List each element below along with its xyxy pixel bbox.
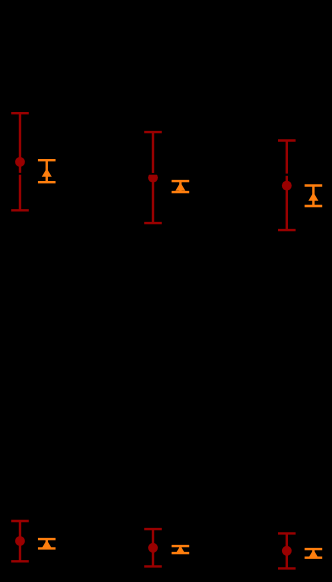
marker circle red top-middle [148,173,158,183]
errorbar orange top-left (series 2, group 1) [38,160,56,182]
gap black-cap over red top-left [12,173,28,175]
marker circle red bottom-right [282,546,292,556]
marker triangle orange top-right [308,192,318,200]
errorbar orange bottom-left (series 2, group 1) [38,539,56,548]
gap black-cap over red top-middle [145,173,161,175]
errorbar red top-left (series 1, group 1) [11,113,29,210]
errorbar red bottom-left (series 1, group 1) [11,521,29,561]
marker circle red bottom-left [15,536,25,546]
marker circle red top-right [282,181,292,191]
marker triangle orange top-middle [175,182,185,190]
marker circle red bottom-middle [148,543,158,553]
marker triangle orange bottom-right [308,550,318,558]
errorbar orange top-middle (series 2, group 2) [172,181,190,192]
marker triangle orange top-left [42,168,52,176]
errorbar orange bottom-right (series 2, group 3) [305,549,323,558]
errorbar red bottom-middle (series 1, group 2) [144,529,162,566]
gap black-cap over red top-right [279,174,295,176]
errorbar orange bottom-middle (series 2, group 2) [172,546,190,553]
errorbar orange top-right (series 2, group 3) [305,186,323,207]
errorbar red top-right (series 1, group 3) [278,141,296,231]
marker triangle orange bottom-middle [175,546,185,554]
errorbar red bottom-right (series 1, group 3) [278,533,296,568]
marker triangle orange bottom-left [42,540,52,548]
errorbar red top-middle (series 1, group 2) [144,132,162,223]
marker circle red top-left [15,157,25,167]
